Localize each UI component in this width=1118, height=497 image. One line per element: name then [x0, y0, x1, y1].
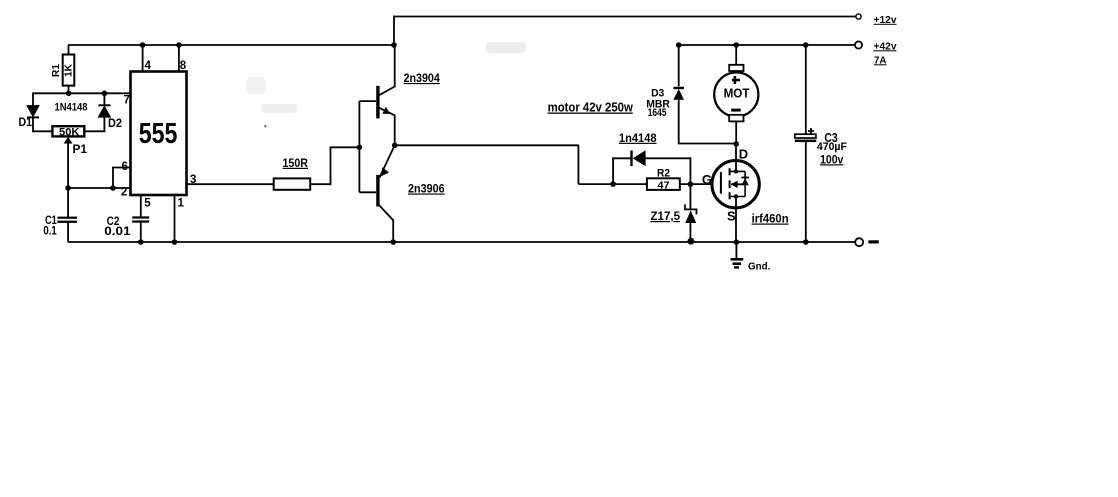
svg-text:4: 4 [145, 60, 152, 72]
motor M1 [714, 45, 758, 144]
wire pin 8 [178, 45, 180, 72]
wire output to gate network [395, 145, 613, 184]
wire pin 1 [174, 195, 176, 242]
capacitor C2 [132, 216, 149, 242]
wire pin 3 [187, 183, 274, 185]
svg-text:2: 2 [121, 187, 127, 199]
svg-text:R1: R1 [50, 64, 62, 77]
wire pin 5 [140, 195, 142, 217]
diode D4 1n4148 bypass [612, 150, 690, 184]
speck dot [264, 125, 266, 127]
wire wiper down [67, 143, 69, 189]
svg-text:irf460n: irf460n [752, 212, 789, 226]
node pin6 junction [110, 185, 116, 191]
svg-text:1645: 1645 [648, 107, 667, 119]
label motor plus [732, 76, 740, 84]
capacitor C1 [57, 217, 77, 242]
svg-text:555: 555 [139, 118, 178, 150]
transistor Q2 2n3906 [359, 145, 394, 242]
svg-text:47: 47 [658, 180, 670, 192]
smudge artifact 1 [486, 42, 526, 53]
label motor minus [731, 109, 741, 112]
wire pin6 jog [112, 168, 131, 190]
diode D3 freewheel [673, 45, 736, 144]
wiper arrow P1 [64, 137, 73, 144]
wire gate lead [690, 183, 721, 185]
wire control row y188 to pin2 [68, 187, 130, 189]
resistor 150R [274, 178, 311, 189]
svg-text:2n3906: 2n3906 [408, 184, 445, 196]
svg-text:MOT: MOT [724, 86, 750, 101]
svg-text:5: 5 [144, 198, 151, 210]
node D3 rail junction [676, 42, 682, 48]
svg-text:S: S [727, 209, 736, 224]
svg-text:1: 1 [178, 198, 185, 210]
node pin1 ground [172, 239, 178, 245]
smudge artifact 3 [261, 104, 297, 113]
wire +42v right rail y45 [679, 44, 855, 46]
diode D2 [84, 92, 110, 131]
svg-text:470µF: 470µF [817, 141, 847, 153]
wire 150R to base rail [310, 147, 359, 185]
wire wiper to C1 [67, 188, 69, 218]
node base rail junction [357, 145, 363, 151]
svg-text:50K: 50K [59, 126, 80, 138]
wire +12v top rail [394, 16, 856, 18]
wire pin 4 [142, 45, 144, 72]
svg-text:8: 8 [180, 60, 187, 72]
node C3 rail junction [803, 42, 809, 48]
IC U1 555 box [131, 72, 187, 196]
label minus dash [868, 240, 878, 243]
svg-text:2n3904: 2n3904 [404, 73, 441, 85]
svg-text:3: 3 [190, 174, 196, 186]
wire left vcc rail y45 [68, 44, 394, 46]
svg-text:R2: R2 [657, 168, 670, 180]
node C3 ground [803, 239, 809, 245]
svg-text:1K: 1K [63, 64, 75, 77]
resistor R1 [63, 45, 75, 93]
zener Z1 Z17.5 [685, 184, 697, 242]
svg-text:0.1: 0.1 [43, 225, 57, 237]
capacitor C3 [795, 45, 817, 242]
svg-text:1N4148: 1N4148 [55, 102, 88, 114]
svg-text:150R: 150R [283, 158, 309, 170]
svg-text:7A: 7A [874, 55, 887, 66]
wire bottom ground rail y242 [68, 241, 855, 243]
svg-text:100v: 100v [820, 154, 844, 166]
svg-text:motor 42v 250w: motor 42v 250w [548, 100, 634, 115]
node source ground [734, 239, 740, 245]
node emitter output junction [392, 143, 398, 149]
smudge artifact 2 [246, 77, 266, 94]
svg-text:1n4148: 1n4148 [619, 133, 657, 145]
node C2 ground [138, 239, 144, 245]
node R2 input junction [610, 181, 616, 187]
node wiper junction [65, 185, 71, 191]
node zener ground [688, 238, 695, 245]
svg-text:D: D [739, 147, 748, 162]
svg-text:+42v: +42v [874, 41, 897, 52]
node pin8 rail junction [176, 42, 182, 48]
node pin4 rail junction [140, 42, 146, 48]
svg-text:+12v: +12v [874, 15, 897, 26]
terminal minus open circle [855, 238, 863, 246]
ground symbol [731, 242, 744, 268]
svg-text:D1: D1 [19, 117, 33, 129]
terminal +12v open circle [856, 14, 861, 19]
svg-text:7: 7 [124, 95, 130, 107]
svg-text:G: G [702, 172, 712, 187]
wire node row y93.3 to pin7 [33, 92, 131, 94]
svg-text:D2: D2 [108, 118, 122, 130]
wire R2 leads [613, 183, 690, 185]
wire drain vertical [735, 144, 737, 171]
svg-text:0.01: 0.01 [104, 226, 131, 238]
label C3 plus [808, 128, 814, 134]
node D2 top [102, 91, 108, 97]
potentiometer P1 50K box [52, 126, 84, 136]
node drain motor junction [733, 141, 739, 147]
diode D1 [27, 92, 52, 131]
node gate junction [688, 181, 694, 187]
wire +12v drop to rail junction [393, 16, 395, 46]
mosfet U2 irf460n [712, 161, 759, 208]
wire base rail vertical [358, 101, 360, 192]
transistor Q1 2n3904 [359, 45, 394, 146]
node motor rail junction [733, 42, 739, 48]
wire source vertical [735, 197, 737, 243]
svg-text:6: 6 [122, 161, 128, 173]
resistor R2 [647, 178, 680, 190]
terminal +42v open circle [855, 41, 862, 48]
svg-text:P1: P1 [73, 142, 88, 156]
node Q2 collector ground [390, 239, 396, 245]
node +12v rail junction [391, 42, 397, 48]
svg-text:Z17,5: Z17,5 [651, 209, 681, 223]
node R1 bottom [66, 91, 72, 97]
svg-text:Gnd.: Gnd. [748, 262, 771, 273]
